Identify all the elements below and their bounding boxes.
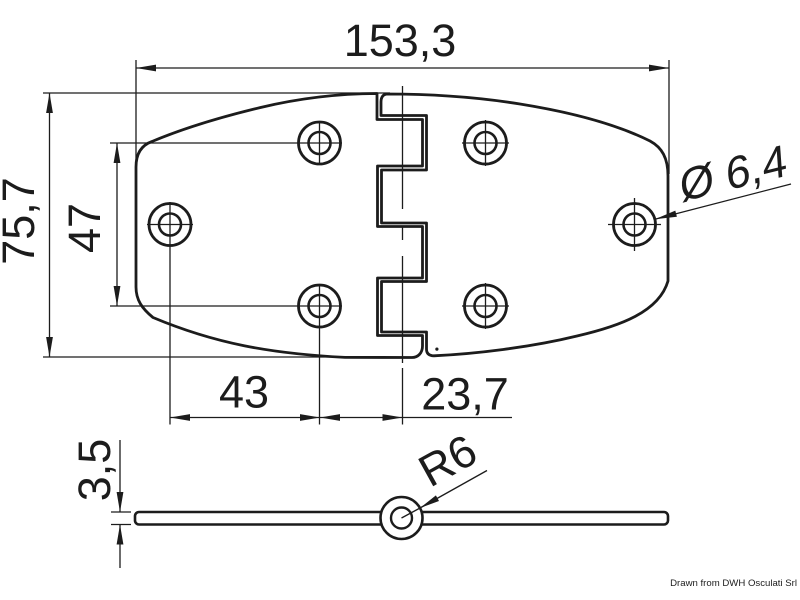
hole H2 crosshair: [320, 121, 343, 165]
hole H3 vertical extension to 43 / 23,7 dimension: [319, 306, 321, 425]
hole H6 crosshair: [608, 198, 661, 251]
svg-text:Ø 6,4: Ø 6,4: [678, 134, 788, 212]
svg-text:75,7: 75,7: [0, 177, 44, 265]
hole H2 horizontal extension to 47 dimension: [110, 142, 320, 144]
dimension 47 arrowheads: [114, 143, 121, 306]
dimension 75,7 extension lines: [43, 93, 390, 357]
hole H3 bottom-center: circles: [299, 285, 341, 327]
stray dot detail near hinge bottom: [435, 348, 438, 351]
hole H4 crosshair: [462, 120, 509, 166]
hole H2 top-center: circles: [299, 122, 341, 164]
dimension 153,3 line: [136, 67, 669, 69]
dimension 47 line: [116, 143, 118, 306]
hole H5 crosshair: [462, 283, 509, 329]
dimension 3,5 extension ticks: [111, 512, 131, 525]
dimension 3,5 arrowheads: [117, 492, 124, 545]
hole H6 middle-right: circles: [614, 204, 656, 246]
dimension 153,3 arrowheads: [136, 65, 669, 72]
svg-text:Drawn from DWH Osculati Srl: Drawn from DWH Osculati Srl: [670, 578, 797, 589]
side view: pin hole inner circle: [391, 508, 412, 529]
svg-text:R6: R6: [410, 424, 485, 496]
hinge pin center line (axis): [402, 86, 404, 425]
hole H1 crosshair: [147, 202, 193, 225]
leader R6 line: [420, 471, 487, 509]
hole H5 bottom-right: circles: [465, 285, 507, 327]
leader R6 arrowhead: [420, 495, 439, 508]
dimension 3,5 lines: [119, 440, 121, 568]
dimension 23,7 arrowheads: [320, 414, 403, 421]
svg-text:3,5: 3,5: [69, 439, 120, 502]
side view: knuckle outer circle: [381, 497, 423, 539]
svg-text:23,7: 23,7: [421, 369, 509, 420]
hole H1 middle-left: circles: [149, 204, 191, 246]
hole H3 horizontal extension to 47 dimension: [110, 305, 320, 307]
dimension 23,7 line: [320, 417, 512, 419]
right hinge leaf outline: [381, 94, 668, 356]
side view: radius line for R6: [402, 508, 421, 518]
dimension 43 line: [170, 417, 320, 419]
leader diameter 6,4 line: [655, 184, 791, 219]
hole H1 vertical extension to 43 dimension: [169, 225, 171, 425]
leader diameter 6,4 arrowhead: [655, 211, 677, 220]
dimension 75,7 line: [49, 93, 51, 357]
side view: hinge plate bar: [135, 512, 668, 525]
svg-text:153,3: 153,3: [344, 15, 457, 66]
dimension 153,3 extension lines: [136, 60, 669, 174]
hole H3 crosshair: [320, 284, 343, 306]
svg-text:43: 43: [219, 367, 269, 418]
dimension 75,7 arrowheads: [46, 93, 53, 357]
hole H4 top-right: circles: [465, 122, 507, 164]
svg-text:47: 47: [59, 203, 110, 253]
dimension 43 arrowheads: [170, 414, 320, 421]
left hinge leaf outline: [136, 94, 423, 358]
